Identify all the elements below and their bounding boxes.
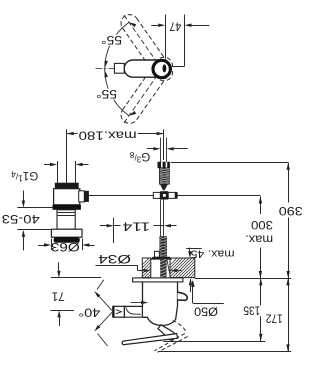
threaded stud above deck xyxy=(159,236,167,256)
dim G3/8 arrows xyxy=(147,148,153,150)
svg-text:172: 172 xyxy=(266,311,283,324)
svg-text:max.180: max.180 xyxy=(79,128,137,141)
swivel centerline lower 55deg xyxy=(123,69,162,125)
dim max.45 xyxy=(186,248,202,250)
svg-text:Ø50: Ø50 xyxy=(194,305,218,318)
lever pivot tab xyxy=(178,292,188,300)
dim 114 xyxy=(113,218,115,243)
spout body solid xyxy=(124,60,168,77)
popup drain pipe xyxy=(57,161,59,183)
mounting flange on deck xyxy=(150,257,172,260)
braided hose upper xyxy=(159,168,169,184)
faucet body dome xyxy=(142,307,177,326)
spout connector xyxy=(114,63,124,73)
55deg label lower xyxy=(95,89,119,100)
40deg fan upper ray xyxy=(97,294,113,311)
dim O34 arrows xyxy=(137,270,143,272)
aerator slot xyxy=(163,64,167,72)
spout axis extension line xyxy=(50,310,74,312)
40deg label xyxy=(77,307,102,318)
hose tip taper xyxy=(160,184,168,190)
swing arc upper 55deg xyxy=(105,22,129,69)
svg-text:max.: max. xyxy=(245,232,273,245)
40deg fan lower ray xyxy=(97,312,113,329)
dim max.300 xyxy=(260,196,262,214)
deck bottom extension left xyxy=(51,277,101,279)
dim 390 xyxy=(288,163,290,203)
swing arc lower 55deg xyxy=(105,69,129,116)
body joint arrow xyxy=(131,302,142,304)
spout inner fillet xyxy=(126,307,141,314)
max.180 left extension popup centerline xyxy=(66,129,68,185)
deck bottom extension right xyxy=(195,278,291,280)
popup threaded section xyxy=(57,210,75,229)
faucet body xyxy=(142,282,144,307)
svg-text:47: 47 xyxy=(169,20,181,33)
svg-text:300: 300 xyxy=(251,218,273,231)
popup base seal ring xyxy=(54,237,80,243)
arc arrowhead lower end xyxy=(129,111,136,116)
spout dashed position upper xyxy=(118,11,176,84)
arc arrowheads at axis xyxy=(105,60,108,67)
aerator chevron xyxy=(116,310,122,314)
popup valve top dark band xyxy=(55,183,79,189)
svg-text:71: 71 xyxy=(52,289,65,302)
dim 172 xyxy=(158,351,291,353)
spout dashed position lower xyxy=(118,54,176,127)
G1 1/4 label xyxy=(11,169,38,183)
O34 label and leader xyxy=(96,254,133,265)
popup rod horizontal line xyxy=(89,195,261,197)
svg-text:40-53: 40-53 xyxy=(2,212,40,225)
deck hatching xyxy=(128,257,189,279)
stud through deck xyxy=(160,258,166,277)
arc arrowhead upper end xyxy=(129,22,136,27)
popup valve body xyxy=(54,189,80,205)
svg-text:135: 135 xyxy=(243,304,260,317)
aerator tip xyxy=(113,306,124,317)
dim 47 extension lines xyxy=(165,15,167,59)
dim 71 xyxy=(58,262,60,270)
lever neck xyxy=(158,325,178,340)
spout pivot ring xyxy=(153,60,170,77)
svg-text:55°: 55° xyxy=(96,87,117,100)
G3/8 label xyxy=(129,150,150,164)
spout side view xyxy=(124,306,142,317)
dim O63 xyxy=(51,239,53,250)
svg-text:Ø34: Ø34 xyxy=(97,252,131,265)
spout axis centerline xyxy=(96,68,115,70)
deck slab right xyxy=(170,258,195,278)
dim G1 1/4 arrows xyxy=(44,164,50,166)
hole cone guide xyxy=(167,258,171,277)
washer left wing xyxy=(155,251,160,257)
dim 40-53 xyxy=(23,191,25,201)
lever blade xyxy=(122,334,178,345)
dim 47 xyxy=(151,25,158,27)
deck slab left xyxy=(142,258,151,278)
lever dashed position xyxy=(173,321,186,332)
dim 135 xyxy=(163,341,265,343)
svg-text:Ø63: Ø63 xyxy=(51,240,80,253)
svg-text:390: 390 xyxy=(279,204,303,217)
svg-text:max. 45: max. 45 xyxy=(191,248,235,260)
swivel centerline upper 55deg xyxy=(123,13,162,69)
faucet escutcheon xyxy=(133,278,183,282)
pull rod below tee xyxy=(160,200,162,237)
svg-text:40°: 40° xyxy=(78,306,100,319)
popup base flange xyxy=(51,229,82,237)
svg-text:55°: 55° xyxy=(101,33,122,46)
popup valve flange seal xyxy=(53,205,81,210)
dim max.180 xyxy=(67,133,78,135)
svg-text:114: 114 xyxy=(122,219,150,232)
390 reference line xyxy=(171,162,289,164)
popup rod knob xyxy=(79,191,85,202)
55deg label upper xyxy=(100,35,124,46)
max.180 right extension faucet centerline xyxy=(163,129,165,160)
hose nut xyxy=(158,162,170,169)
rod tee joint xyxy=(153,192,160,198)
hose pair lines xyxy=(160,138,162,162)
